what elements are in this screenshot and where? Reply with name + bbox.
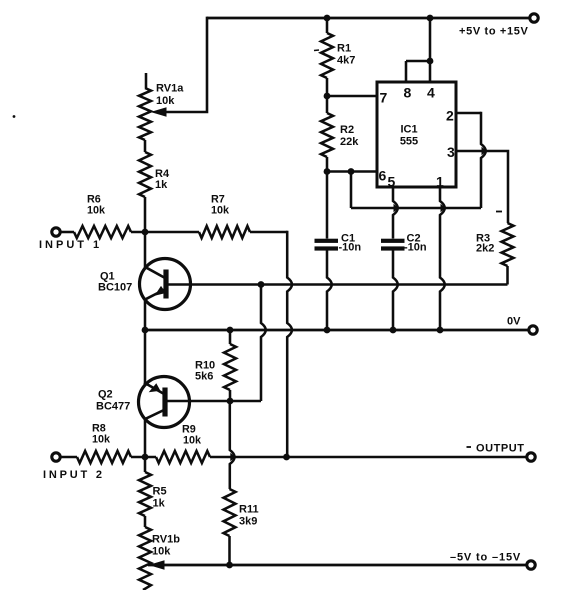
svg-text:R2: R2 xyxy=(340,124,354,136)
wire R3 to collector line xyxy=(506,266,509,285)
potentiometer RV1a xyxy=(139,88,151,140)
wire R2 to pin6 node xyxy=(326,157,329,172)
svg-text:10k: 10k xyxy=(156,95,175,107)
wire pin3 to R3 xyxy=(456,151,508,223)
transistor Q2 collector lead xyxy=(146,410,166,419)
node -V rail / R11 xyxy=(226,562,233,569)
pin 3 label xyxy=(447,144,455,160)
svg-text:+5V to +15V: +5V to +15V xyxy=(459,26,529,38)
svg-text:8: 8 xyxy=(404,85,412,101)
svg-text:2k2: 2k2 xyxy=(476,243,494,255)
label R6 xyxy=(87,194,101,206)
svg-text:IC1: IC1 xyxy=(400,124,417,136)
wire feedback drop xyxy=(287,231,292,457)
wire C2 to 0V xyxy=(393,251,398,331)
speck right of pin1 line xyxy=(496,211,502,213)
svg-text:10k: 10k xyxy=(87,205,106,217)
resistor R11 xyxy=(224,489,236,536)
label RV1a 10k xyxy=(156,95,175,107)
label R8 xyxy=(92,423,106,435)
node 0V / C1 xyxy=(324,327,331,334)
svg-text:5: 5 xyxy=(388,174,396,190)
terminal OUTPUT xyxy=(527,453,535,461)
resistor R5 xyxy=(139,472,151,516)
label R11 xyxy=(239,504,259,516)
wire pin7 xyxy=(327,95,377,98)
wire R8 to R9 xyxy=(131,456,156,459)
wire pin6 xyxy=(327,170,377,173)
crossover pin2 drop x pin3 line xyxy=(482,147,487,155)
speck left margin xyxy=(13,115,16,118)
svg-text:1k: 1k xyxy=(155,179,168,191)
label OUTPUT xyxy=(476,443,525,455)
wire R1 to pin7 node xyxy=(326,78,329,113)
wire C1 to 0V xyxy=(327,251,332,331)
wire top rail corner to RV1a wiper xyxy=(166,17,207,112)
op-amp IC1 555 body xyxy=(377,82,456,187)
resistor R8 xyxy=(77,451,131,463)
wire input2 terminal to R8 xyxy=(61,456,78,459)
wire 0V to Q2 emitter xyxy=(144,330,147,386)
wire Q2 base line to R11 xyxy=(230,401,235,489)
svg-text:6: 6 xyxy=(379,168,387,184)
wire Q1 emitter to 0V xyxy=(144,300,147,330)
transistor Q1 emitter lead xyxy=(145,290,165,300)
label BC107 xyxy=(98,282,132,294)
transistor Q1 base bar xyxy=(163,270,168,299)
svg-text:–5V to –15V: –5V to –15V xyxy=(450,552,521,564)
resistor R6 xyxy=(74,226,131,238)
node R1/R2/pin7 xyxy=(324,93,331,100)
terminal +V xyxy=(530,14,538,22)
node 0V / C2 xyxy=(390,327,397,334)
node R2/C1/pin6 line xyxy=(324,168,331,175)
node pin6 line tie xyxy=(348,168,355,175)
wire input2 node to R5 xyxy=(144,457,147,472)
resistor R7 xyxy=(199,226,250,238)
pin 2 label xyxy=(446,108,454,124)
svg-text:R1: R1 xyxy=(337,43,351,55)
label C1 xyxy=(341,233,355,245)
node input2 junction xyxy=(142,454,149,461)
pin 6 label xyxy=(379,168,387,184)
svg-text:R5: R5 xyxy=(153,486,167,498)
resistor R9 xyxy=(156,451,210,463)
pin 5 label xyxy=(388,174,396,190)
label R1 xyxy=(337,43,351,55)
label R10 xyxy=(195,360,215,372)
label +5V to +15V xyxy=(459,26,529,38)
label R1 4k7 xyxy=(337,55,355,67)
svg-text:R11: R11 xyxy=(239,504,259,516)
wire pin5 stub xyxy=(393,187,398,239)
transistor Q2 circle xyxy=(139,377,190,428)
transistor Q2 base bar xyxy=(162,388,167,417)
crossover R11 column x output row xyxy=(230,453,235,461)
resistor R2 xyxy=(321,113,333,157)
svg-text:-10n: -10n xyxy=(404,242,427,254)
svg-text:0V: 0V xyxy=(507,316,521,328)
resistor R4 xyxy=(139,152,151,197)
node collector line to Q2 drop xyxy=(258,281,265,288)
transistor Q1 emitter arrow xyxy=(155,286,167,296)
label R9 10k xyxy=(183,435,202,447)
svg-text:10k: 10k xyxy=(152,546,171,558)
wire pin8 stub xyxy=(405,61,408,82)
wire R9 to output terminal xyxy=(210,456,527,459)
potentiometer RV1b wiper arrow xyxy=(149,560,165,570)
svg-text:4k7: 4k7 xyxy=(337,55,355,67)
label Q2 xyxy=(98,389,113,401)
wire R6 to R7 xyxy=(131,231,199,234)
wire input1 terminal to R6 xyxy=(61,231,75,234)
label R5 1k xyxy=(153,498,166,510)
label R7 10k xyxy=(211,205,230,217)
label R11 3k9 xyxy=(239,516,257,528)
label RV1b 10k xyxy=(152,546,171,558)
wire RV1a to R4 xyxy=(144,140,147,152)
wire pins2-6 tie horizontal xyxy=(351,207,481,210)
terminal INPUT 1 xyxy=(52,228,60,236)
wire pin6 node to C1 xyxy=(326,172,329,239)
label R3 2k2 xyxy=(476,243,494,255)
svg-text:555: 555 xyxy=(400,136,418,148)
label R8 10k xyxy=(92,434,111,446)
speck dash before OUTPUT xyxy=(467,446,472,448)
svg-text:10k: 10k xyxy=(92,434,111,446)
wire Q2 base line xyxy=(165,400,261,403)
wire pin1 to 0V xyxy=(440,187,445,330)
label C1 10n xyxy=(339,242,362,254)
svg-text:-10n: -10n xyxy=(339,242,362,254)
pin 8 label xyxy=(404,85,412,101)
wire rail feed to pin4 xyxy=(429,18,432,61)
label R9 xyxy=(182,424,196,436)
potentiometer RV1a wiper arrow xyxy=(151,107,167,117)
label R5 xyxy=(153,486,167,498)
label 0V xyxy=(507,316,521,328)
label -5V to -15V xyxy=(450,552,521,564)
pin 1 label xyxy=(436,174,444,190)
label R6 10k xyxy=(87,205,106,217)
label 555 xyxy=(400,136,418,148)
label INPUT 2 xyxy=(43,469,105,481)
svg-text:INPUT 2: INPUT 2 xyxy=(43,469,105,481)
wire top +V rail xyxy=(207,17,530,20)
svg-text:5k6: 5k6 xyxy=(195,371,213,383)
svg-text:3k9: 3k9 xyxy=(239,516,257,528)
svg-text:4: 4 xyxy=(427,85,435,101)
wire pin4 stub xyxy=(429,61,432,82)
node input1 junction xyxy=(142,229,149,236)
svg-text:10k: 10k xyxy=(183,435,202,447)
wire drop to Q2 base line xyxy=(261,285,266,402)
terminal -V xyxy=(527,561,535,569)
wire R4 to input1 node xyxy=(144,197,147,232)
node Q2 base line / R10 xyxy=(227,398,234,405)
wire pin2 drop xyxy=(481,112,486,208)
transistor Q1 collector lead xyxy=(146,267,167,278)
wire R10 to Q2 base line xyxy=(229,390,232,401)
label R3 xyxy=(476,233,490,245)
svg-text:BC477: BC477 xyxy=(96,401,130,413)
junction top rail / R1 xyxy=(324,15,331,22)
node 0V / pin1 xyxy=(437,327,444,334)
resistor R3 xyxy=(502,223,514,266)
terminal 0V xyxy=(529,326,537,334)
label R7 xyxy=(211,194,225,206)
node output row / feedback xyxy=(283,454,290,461)
wire 0V rail xyxy=(145,329,529,332)
capacitor C1 xyxy=(315,239,339,251)
crossover pin5 x tie line xyxy=(394,204,399,212)
svg-text:Q2: Q2 xyxy=(98,389,113,401)
pin 7 label xyxy=(380,90,388,106)
transistor Q1 circle xyxy=(140,259,191,310)
svg-text:3: 3 xyxy=(447,144,455,160)
resistor R10 xyxy=(224,344,236,390)
wire R5 to RV1b xyxy=(144,516,147,527)
wire pin8-pin4 bridge xyxy=(406,60,430,63)
label R10 5k6 xyxy=(195,371,213,383)
label C2 10n xyxy=(404,242,427,254)
capacitor C2 xyxy=(381,239,405,251)
svg-text:7: 7 xyxy=(380,90,388,106)
wire pin2 xyxy=(456,112,481,115)
crossover pin1 x tie line xyxy=(441,204,446,212)
label RV1b xyxy=(152,534,180,546)
label R2 22k xyxy=(340,136,359,148)
resistor R1 xyxy=(321,33,333,78)
label C2 xyxy=(407,233,421,245)
node 0V / transistor column xyxy=(142,327,149,334)
svg-text:INPUT 1: INPUT 1 xyxy=(39,239,102,251)
svg-text:2: 2 xyxy=(446,108,454,124)
svg-text:OUTPUT: OUTPUT xyxy=(476,443,525,455)
wire R11 to -V rail xyxy=(228,536,231,565)
svg-text:RV1b: RV1b xyxy=(152,534,180,546)
wire rail to R1 xyxy=(326,18,329,33)
speck near R1 xyxy=(314,49,319,52)
terminal INPUT 2 xyxy=(52,453,60,461)
wire pin6 node drop xyxy=(350,172,353,209)
wire R7 to feedback drop xyxy=(250,231,288,234)
wire RV1a top stub xyxy=(145,73,148,88)
transistor Q2 emitter lead xyxy=(144,383,165,395)
label Q1 xyxy=(100,271,115,283)
junction top rail / pin4 feed xyxy=(427,15,434,22)
wire bottom -V rail xyxy=(148,564,527,567)
label RV1a xyxy=(156,83,184,95)
svg-text:10k: 10k xyxy=(211,205,230,217)
svg-text:BC107: BC107 xyxy=(98,282,132,294)
svg-text:1k: 1k xyxy=(153,498,166,510)
label INPUT 1 xyxy=(39,239,102,251)
label R4 xyxy=(155,168,170,180)
svg-text:22k: 22k xyxy=(340,136,359,148)
node pin4 bridge xyxy=(427,58,434,65)
wire input1 node to Q1 xyxy=(144,232,147,268)
label IC1 xyxy=(400,124,417,136)
svg-text:RV1a: RV1a xyxy=(156,83,184,95)
wire Q1 base / collector line xyxy=(166,283,508,286)
label R2 xyxy=(340,124,354,136)
pin 4 label xyxy=(427,85,435,101)
label R4 1k xyxy=(155,179,168,191)
label BC477 xyxy=(96,401,130,413)
transistor Q2 emitter arrow xyxy=(149,383,161,392)
wire 0V to R10 xyxy=(229,330,232,344)
potentiometer RV1b xyxy=(139,527,151,590)
node 0V / R10 xyxy=(227,327,234,334)
wire Q2 collector to input2 node xyxy=(144,418,147,457)
